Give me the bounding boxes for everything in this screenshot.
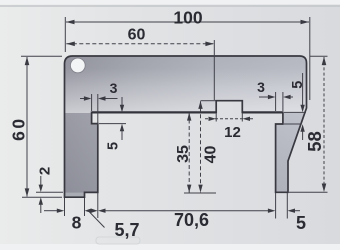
58 top arrow (322, 57, 327, 66)
dim 5 left: lower shaft (121, 131, 123, 141)
extension line left edge (top dims) (64, 17, 66, 52)
svg-text:3: 3 (257, 79, 265, 95)
dim 2: upper arrow shaft (40, 176, 42, 185)
3 right: outside right-pointing arrow (268, 95, 276, 99)
dim line 60 top (dashed) (66, 43, 213, 45)
5 right: upper arrow points down (300, 105, 304, 113)
faint top rule (0, 5, 340, 7)
dim 3 left: right shaft (105, 98, 118, 100)
35 bottom arrow (187, 185, 191, 193)
2 upper arrow (points down) (39, 185, 43, 193)
dim line 60 left (26, 57, 28, 197)
70,6 left arrow (98, 209, 106, 213)
2 lower arrow (points up) (39, 197, 43, 205)
svg-text:60: 60 (128, 27, 146, 44)
lighter top strip (0, 0, 340, 5)
svg-text:3: 3 (110, 80, 118, 96)
svg-text:5: 5 (296, 213, 306, 233)
svg-text:58: 58 (304, 131, 325, 152)
dim 5 left: upper shaft (121, 97, 123, 106)
plate lower-half lightening overlay (60, 56, 310, 113)
plate top darker band overlay (60, 56, 310, 86)
5,7 left arrow (points left, tip at foot step) (85, 209, 92, 213)
60 left bottom arrow (25, 188, 30, 197)
dim 5 right: extension ledge right (284, 123, 300, 125)
40 bottom arrow (198, 185, 202, 193)
dim 5 right: lower shaft (302, 131, 304, 141)
dim 5 right: upper shaft (302, 73, 304, 106)
leader line for 5,7 (90, 212, 105, 228)
dim 3 left: extension of leg face up (97, 94, 99, 127)
60 left top arrow (25, 57, 30, 66)
faint ghost mark bottom (96, 237, 140, 244)
dim 5 right: extension plate edge right (284, 111, 306, 113)
dim 12: extension notch right wall down (241, 113, 243, 122)
dim line 100 (66, 21, 309, 23)
5,7 right arrow (points right, tip at leg face) (91, 209, 98, 213)
hole near top-left (70, 58, 85, 73)
dim 12: line with outside shafts (dashed middle) (205, 118, 253, 120)
svg-text:70,6: 70,6 (174, 210, 209, 230)
bottom dim line: 70,6 shaft (104, 210, 270, 212)
3 right: outside left-pointing arrow (283, 95, 291, 99)
dim 35: line (188, 113, 190, 193)
dim 3 left: extension of notch wall up (91, 94, 93, 111)
dim 58: extension top right (310, 55, 328, 57)
100 left arrow (66, 20, 75, 25)
extension line right edge (dim 100) (309, 17, 311, 100)
dim 2: lower arrow shaft (40, 205, 42, 214)
58 bottom arrow (322, 184, 327, 193)
foot lighter face (65, 193, 84, 197)
12 right outside arrow (243, 117, 251, 121)
3 left: outside right-pointing arrow (84, 96, 92, 100)
svg-text:5,7: 5,7 (114, 220, 139, 240)
dim 3 left: left shaft (80, 98, 85, 100)
svg-text:35: 35 (175, 145, 192, 163)
lighter bottom strip (0, 244, 340, 250)
dim 12: extension notch left wall down (215, 113, 217, 122)
bottom extension lines (64, 198, 66, 216)
svg-text:5: 5 (106, 142, 122, 150)
40 top arrow (198, 101, 202, 109)
svg-text:100: 100 (173, 8, 202, 28)
dim 2: extension y=192.3 (36, 191, 63, 193)
5 bottom right outside arrow (288, 209, 296, 213)
plate bottom edge emphasis (92, 111, 217, 113)
svg-text:40: 40 (203, 146, 220, 164)
bottom dim line: 8 left shaft (44, 210, 58, 212)
dim 3 right: left shaft (259, 96, 269, 98)
part body (profile cross-section) (65, 56, 307, 197)
svg-text:12: 12 (224, 124, 241, 141)
arrowheads (25, 20, 327, 213)
8 left outside arrow (57, 209, 65, 213)
extension line x=214 (dim 60 top) (213, 40, 215, 100)
dim line 58 (323, 57, 325, 192)
5 left: upper arrow points down (120, 105, 124, 113)
left 60: extension bottom (22, 196, 62, 198)
dim 3 right: extension wall up (282, 92, 284, 111)
60 top left arrow (66, 42, 75, 47)
dim 40: extension of notch ceiling left (201, 100, 216, 102)
dim 40: line (200, 101, 202, 192)
svg-text:5: 5 (290, 81, 306, 89)
100 right arrow (301, 20, 310, 25)
60 top right arrow (205, 42, 214, 47)
dim 5 left: extension ledge right (99, 123, 126, 125)
svg-text:60: 60 (8, 116, 28, 140)
35 top arrow (187, 113, 191, 121)
70,6 right arrow (268, 209, 276, 213)
legs lower darkening overlay (60, 112, 310, 198)
left 60: extension top (21, 55, 62, 57)
svg-text:2: 2 (37, 167, 54, 175)
datum extension line for 35/40 (184, 192, 216, 194)
dim 3 right: extension of leg face up (275, 92, 277, 111)
3 left: outside left-pointing arrow (98, 96, 106, 100)
dim 58: extension bottom right (289, 191, 328, 193)
5 left: lower arrow points up (120, 124, 124, 132)
svg-text:8: 8 (72, 213, 82, 233)
12 left outside arrow (209, 117, 217, 121)
5 right: lower arrow points up (300, 124, 304, 132)
part outline (65, 56, 307, 197)
bottom dim line: 5 right shaft (294, 210, 300, 212)
dim 3 right: right shaft (290, 96, 294, 98)
